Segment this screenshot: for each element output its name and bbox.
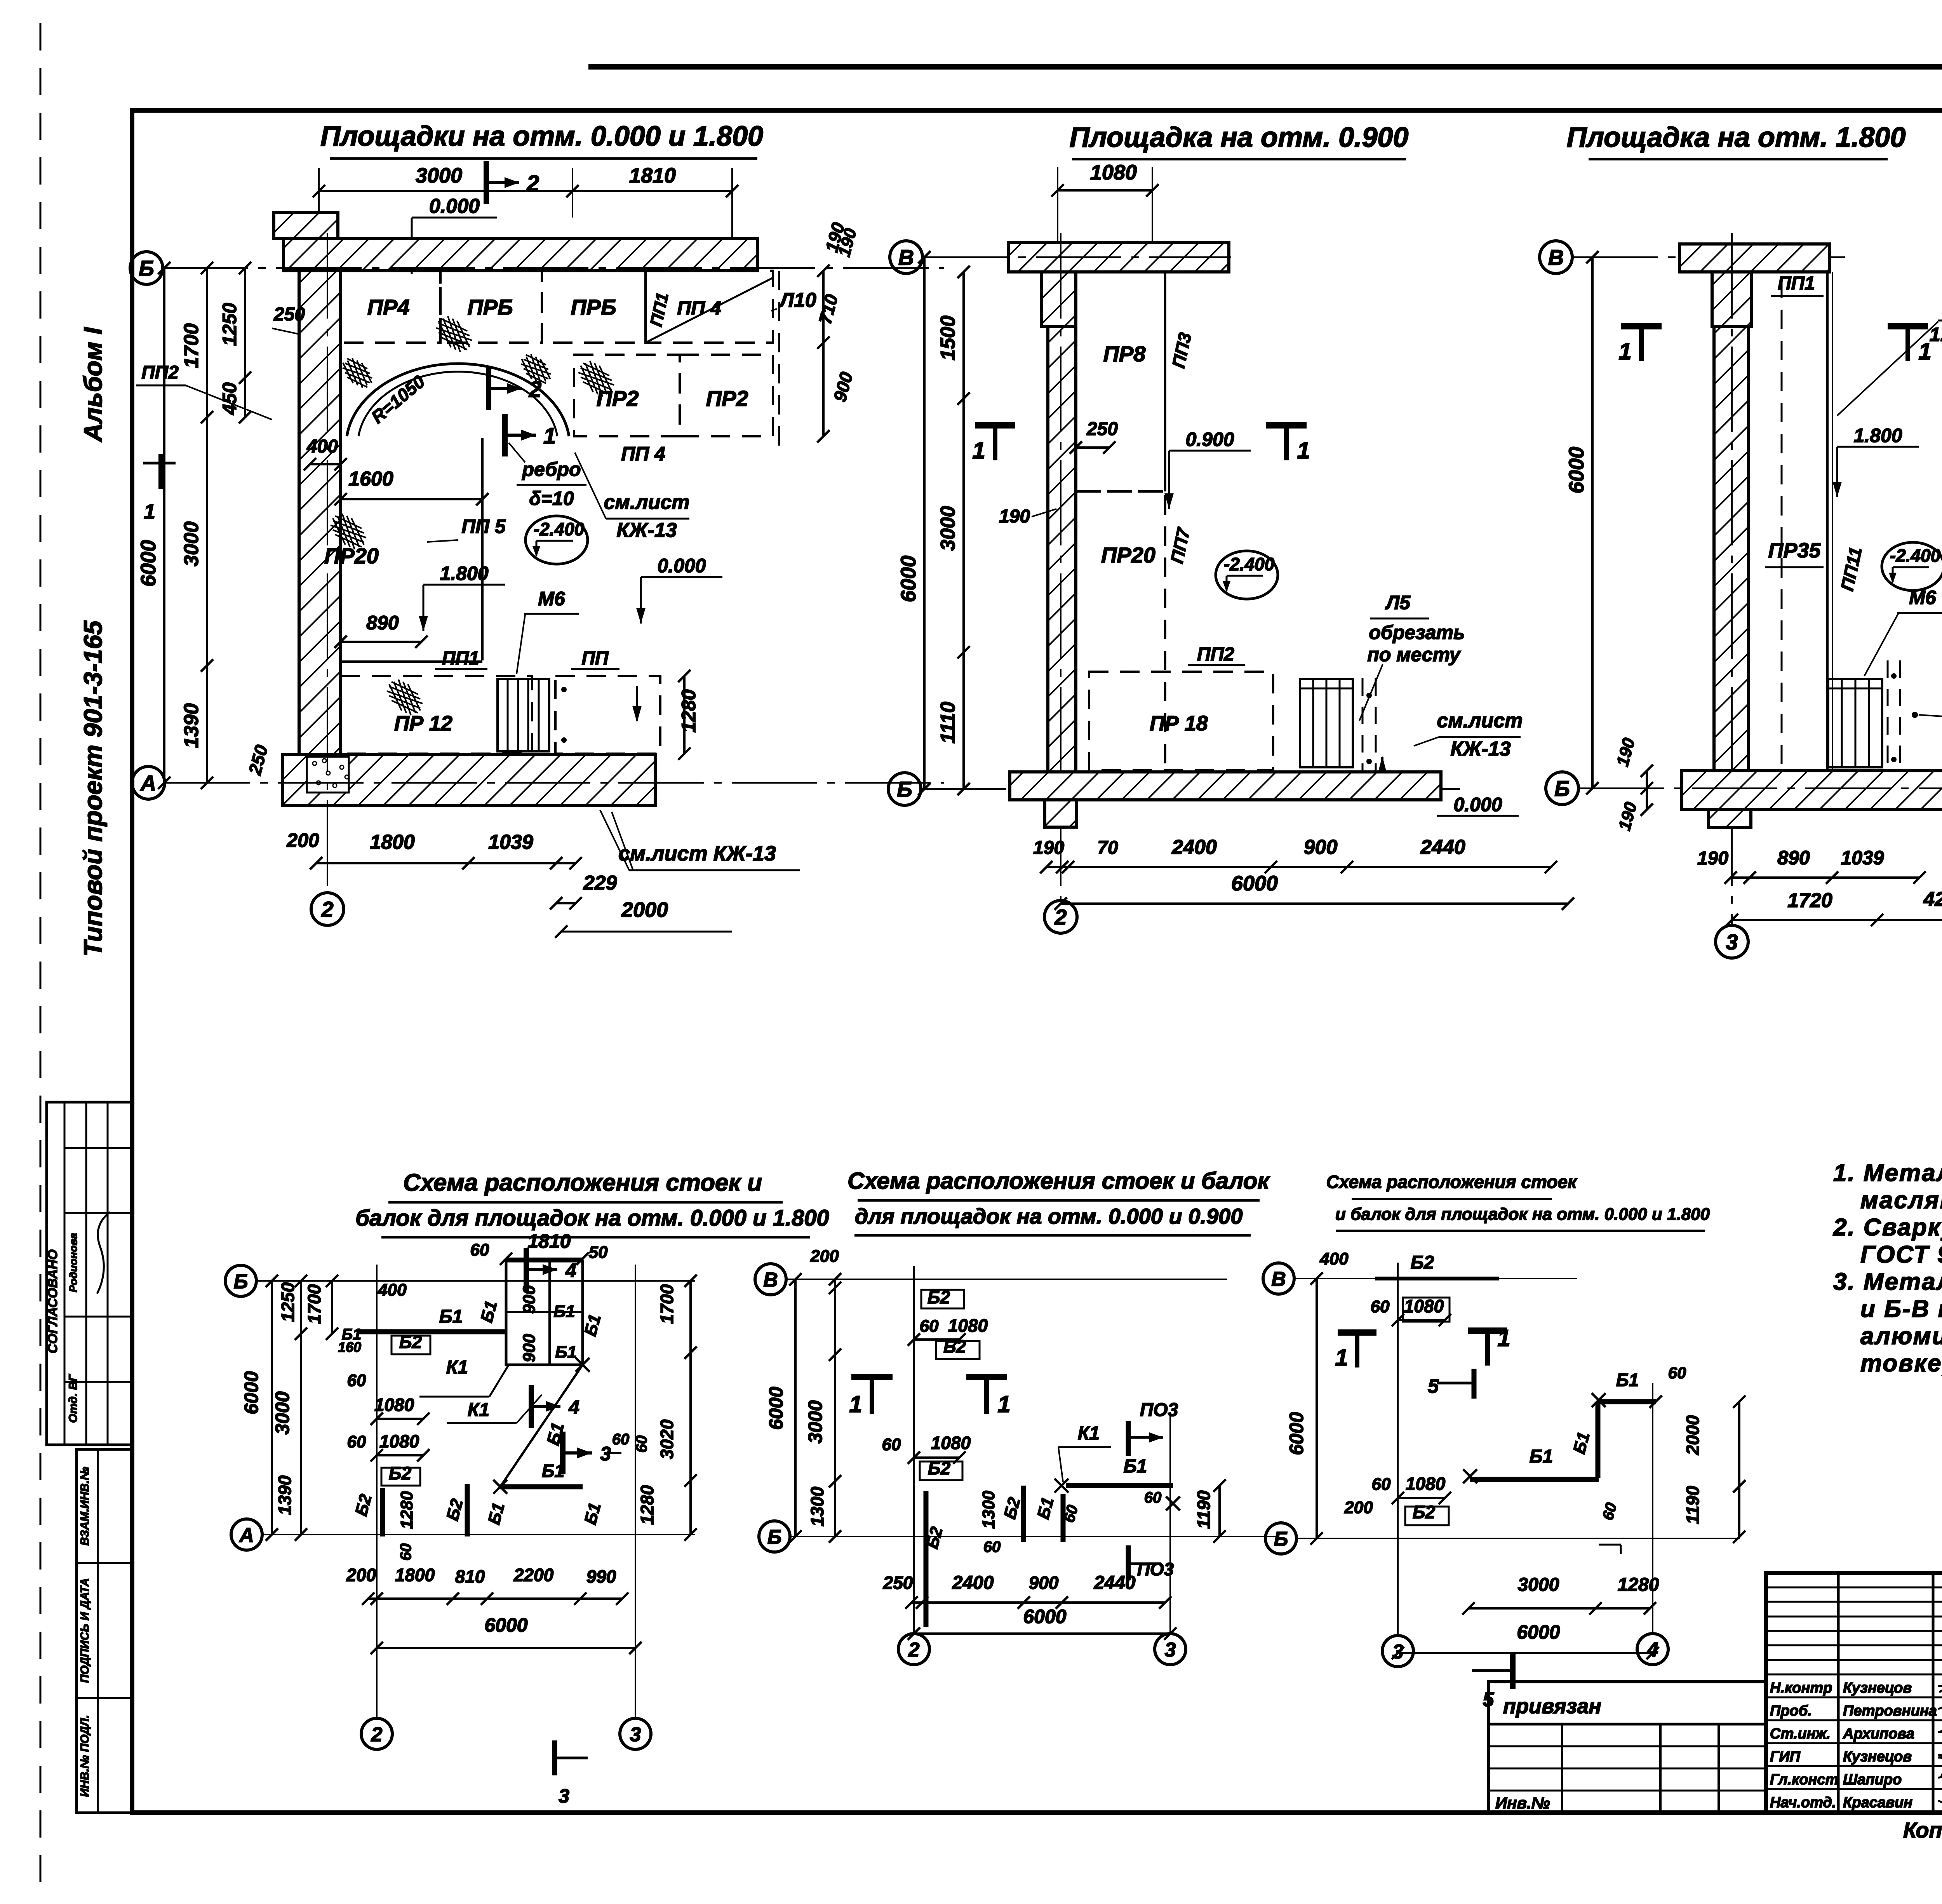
svg-text:Петровнина: Петровнина	[1843, 1703, 1937, 1719]
stairs d2	[1300, 679, 1353, 767]
svg-text:Копировал Корецкая: Копировал Корецкая	[1903, 1818, 1942, 1842]
svg-text:3000: 3000	[180, 521, 203, 566]
svg-text:450: 450	[219, 382, 240, 415]
scheme1 axes	[225, 1265, 256, 1296]
svg-text:Б1: Б1	[439, 1306, 463, 1327]
svg-text:Проб.: Проб.	[1770, 1703, 1812, 1719]
svg-text:1700: 1700	[304, 1284, 324, 1324]
svg-text:ПРБ: ПРБ	[467, 295, 513, 319]
platform PR18	[1089, 672, 1273, 770]
svg-text:К1: К1	[1078, 1423, 1100, 1444]
svg-text:Б1: Б1	[1530, 1446, 1553, 1467]
svg-text:1: 1	[1497, 1325, 1510, 1351]
svg-text:2200: 2200	[513, 1565, 554, 1585]
svg-text:250: 250	[883, 1573, 913, 1593]
scheme3 flag 5 bottom	[1472, 1669, 1511, 1672]
svg-text:900: 900	[520, 1285, 539, 1314]
svg-text:Площадки на отм. 0.000 и 1.8: Площадки на отм. 0.000 и 1.800	[320, 121, 763, 152]
svg-text:ПП 4: ПП 4	[621, 443, 665, 465]
svg-text:60: 60	[470, 1240, 489, 1259]
svg-text:ПР4: ПР4	[367, 295, 410, 319]
svg-text:алюминиевой пудры (лак БТ-57: алюминиевой пудры (лак БТ-577) по огрун-	[1860, 1323, 1942, 1350]
svg-text:3: 3	[1165, 1639, 1176, 1661]
svg-text:Б1: Б1	[1616, 1370, 1639, 1390]
svg-text:0.000: 0.000	[657, 555, 706, 577]
svg-text:Архипова: Архипова	[1843, 1726, 1914, 1742]
svg-text:6000: 6000	[897, 556, 920, 602]
svg-text:1300: 1300	[979, 1491, 998, 1529]
svg-text:60: 60	[633, 1435, 650, 1453]
svg-text:50: 50	[589, 1243, 608, 1262]
svg-text:2. Сварку производить электр: 2. Сварку производить электродами Э42	[1833, 1214, 1942, 1241]
svg-text:см.лист: см.лист	[1437, 709, 1523, 732]
svg-text:обрезать: обрезать	[1369, 622, 1465, 643]
scheme1 beam B1 top	[357, 1329, 506, 1334]
svg-text:1.459-2,вып.1: 1.459-2,вып.1	[1930, 324, 1942, 345]
svg-text:60: 60	[920, 1317, 939, 1336]
svg-text:Площадка на отм. 0.900: Площадка на отм. 0.900	[1070, 122, 1409, 153]
svg-text:Б: Б	[139, 256, 154, 280]
scheme3 bottom dims	[1469, 1607, 1650, 1610]
svg-text:190: 190	[1033, 838, 1064, 858]
svg-text:ПП1: ПП1	[1778, 273, 1815, 294]
svg-text:В: В	[763, 1269, 778, 1291]
pilaster d3	[1712, 272, 1752, 326]
svg-text:2: 2	[526, 171, 539, 196]
svg-text:В: В	[1271, 1268, 1286, 1291]
svg-text:1080: 1080	[948, 1315, 988, 1336]
svg-text:1: 1	[849, 1391, 862, 1417]
wall top band d3	[1679, 244, 1829, 272]
svg-text:ГИП: ГИП	[1770, 1749, 1801, 1765]
svg-text:ПРБ: ПРБ	[571, 295, 616, 319]
wall strip d3	[1714, 326, 1749, 771]
platform PR4	[341, 271, 440, 343]
svg-text:400: 400	[378, 1280, 407, 1300]
svg-text:2: 2	[529, 377, 541, 402]
svg-text:ПП2: ПП2	[141, 362, 179, 383]
svg-text:Б: Б	[767, 1526, 782, 1549]
svg-text:Шапиро: Шапиро	[1843, 1772, 1902, 1788]
svg-text:2400: 2400	[952, 1573, 994, 1593]
svg-text:3: 3	[1726, 930, 1738, 954]
scheme2 flags 1	[851, 1374, 893, 1380]
svg-text:1700: 1700	[180, 323, 203, 368]
svg-text:200: 200	[1344, 1498, 1373, 1517]
scheme1 diagonal B1	[500, 1365, 583, 1487]
sheet frame	[588, 64, 1942, 70]
svg-text:6000: 6000	[137, 540, 160, 587]
svg-text:ПП 4: ПП 4	[677, 297, 721, 319]
axis 2 line	[311, 893, 344, 925]
privyazan box	[1489, 1682, 1766, 1813]
svg-text:1110: 1110	[937, 702, 959, 744]
svg-text:2400: 2400	[1171, 836, 1217, 859]
svg-text:Б2: Б2	[1411, 1252, 1434, 1273]
wall top band d2	[1008, 242, 1229, 272]
cut flag 1 left margin d1	[158, 454, 164, 489]
stairs	[498, 679, 549, 751]
svg-text:Л10: Л10	[778, 289, 816, 312]
svg-text:-2.400: -2.400	[1224, 554, 1275, 574]
svg-text:Красавин: Красавин	[1843, 1794, 1912, 1811]
dashed columns d3	[1887, 660, 1889, 771]
platform edges d3	[1781, 279, 1783, 771]
svg-text:Отд. ВГ: Отд. ВГ	[67, 1374, 80, 1423]
svg-text:и Б-В покрыть 2 слоями лак: и Б-В покрыть 2 слоями лака с добавление…	[1860, 1296, 1942, 1322]
scheme2 B1 horizontal	[1066, 1483, 1173, 1488]
svg-text:1250: 1250	[278, 1282, 298, 1322]
svg-text:СОГЛАСОВАНО: СОГЛАСОВАНО	[45, 1249, 60, 1353]
svg-text:3000: 3000	[1518, 1575, 1559, 1595]
left dims d2	[962, 272, 965, 789]
svg-text:3000: 3000	[804, 1400, 826, 1443]
svg-text:ПП1: ПП1	[442, 648, 479, 669]
svg-text:1: 1	[1297, 437, 1310, 463]
soglasovano stamp box	[47, 1102, 132, 1445]
svg-text:810: 810	[455, 1566, 485, 1587]
arc R=1050	[347, 364, 569, 436]
svg-text:1810: 1810	[527, 1230, 571, 1252]
svg-text:0.000: 0.000	[429, 195, 480, 218]
scheme3 left dim	[1316, 1279, 1318, 1538]
wall top band	[284, 239, 757, 271]
scheme1 bottom beams	[500, 1484, 583, 1489]
axis B line	[130, 252, 163, 284]
svg-text:1: 1	[1335, 1345, 1348, 1371]
svg-text:К1: К1	[446, 1357, 468, 1378]
svg-text:4280: 4280	[1923, 888, 1942, 911]
platform PR8	[1076, 272, 1165, 491]
svg-text:Нач.отд.: Нач.отд.	[1770, 1794, 1836, 1811]
dashed platform right of stairs	[555, 676, 660, 754]
svg-text:3: 3	[559, 1785, 569, 1807]
svg-text:ПР8: ПР8	[1103, 341, 1146, 366]
svg-text:ПР 18: ПР 18	[1150, 712, 1208, 735]
svg-text:200: 200	[810, 1247, 839, 1266]
axis 2 d2	[1044, 901, 1077, 933]
svg-text:1: 1	[997, 1391, 1010, 1417]
svg-text:0.900: 0.900	[1185, 429, 1234, 450]
svg-text:см.лист КЖ-13: см.лист КЖ-13	[618, 842, 776, 865]
svg-text:ПО3: ПО3	[1140, 1400, 1178, 1420]
svg-text:ПО3: ПО3	[1137, 1559, 1174, 1579]
svg-text:КЖ-13: КЖ-13	[616, 519, 677, 542]
svg-text:2: 2	[908, 1639, 920, 1661]
svg-text:Б: Б	[234, 1270, 248, 1293]
svg-text:ГОСТ 9467-75, hшв = 6мм.: ГОСТ 9467-75, hшв = 6мм.	[1860, 1241, 1942, 1268]
svg-text:Б1: Б1	[542, 1461, 564, 1481]
svg-text:δ=10: δ=10	[529, 488, 574, 509]
svg-text:200: 200	[346, 1565, 376, 1585]
svg-text:2440: 2440	[1094, 1573, 1136, 1593]
svg-text:ПП 5: ПП 5	[461, 516, 506, 537]
svg-text:Типовой проект 901-3-165: Типовой проект 901-3-165	[78, 620, 107, 956]
scheme3 flags	[1338, 1329, 1376, 1336]
section flags 1 d2	[975, 422, 1015, 429]
svg-text:1080: 1080	[1090, 161, 1137, 184]
PP1 area right	[646, 271, 773, 343]
wall bottom band d2	[1010, 772, 1441, 800]
svg-text:60: 60	[397, 1543, 414, 1561]
svg-text:2440: 2440	[1420, 836, 1465, 859]
svg-text:160: 160	[338, 1339, 361, 1355]
bottom dims d2	[1046, 866, 1551, 868]
svg-text:890: 890	[1777, 847, 1810, 869]
svg-text:890: 890	[366, 612, 399, 634]
svg-text:400: 400	[1319, 1249, 1349, 1268]
svg-text:1: 1	[543, 423, 556, 449]
scheme3 beams	[1463, 1469, 1477, 1483]
svg-text:6000: 6000	[765, 1387, 787, 1430]
svg-text:ПР20: ПР20	[1101, 543, 1155, 567]
svg-text:6000: 6000	[240, 1371, 262, 1414]
svg-text:1250: 1250	[219, 303, 240, 346]
svg-text:по месту: по месту	[1367, 644, 1461, 665]
svg-text:-2.400: -2.400	[1890, 545, 1941, 566]
svg-text:ребро: ребро	[521, 458, 581, 480]
svg-text:Б2: Б2	[1413, 1502, 1436, 1522]
svg-text:1080: 1080	[1406, 1474, 1446, 1494]
svg-text:1280: 1280	[1618, 1575, 1659, 1595]
svg-text:1700: 1700	[657, 1284, 677, 1324]
svg-text:Гл.конст: Гл.конст	[1770, 1772, 1838, 1788]
svg-text:Б2: Б2	[389, 1463, 412, 1483]
svg-text:ИНВ.№ ПОДЛ.: ИНВ.№ ПОДЛ.	[78, 1715, 91, 1797]
svg-text:3020: 3020	[657, 1419, 677, 1459]
svg-text:900: 900	[520, 1334, 539, 1362]
svg-text:для площадок на отм. 0.000 и 0: для площадок на отм. 0.000 и 0.900	[855, 1204, 1243, 1228]
svg-text:3000: 3000	[416, 164, 462, 187]
svg-text:250: 250	[273, 304, 305, 325]
svg-text:В: В	[898, 245, 914, 270]
left edge dashed line	[40, 23, 42, 1896]
svg-text:1: 1	[144, 500, 155, 523]
svg-text:Площадка на отм. 1.800: Площадка на отм. 1.800	[1567, 122, 1906, 153]
svg-text:6000: 6000	[1231, 872, 1278, 895]
svg-text:1080: 1080	[1404, 1296, 1444, 1316]
svg-text:масляной краской за 2 раза: масляной краской за 2 раза ( ГОСТ 695-77…	[1860, 1187, 1942, 1214]
svg-text:400: 400	[306, 436, 338, 457]
svg-text:1720: 1720	[1787, 889, 1832, 912]
svg-text:Кузнецов: Кузнецов	[1843, 1749, 1912, 1765]
svg-text:ВЗАМ.ИНВ.№: ВЗАМ.ИНВ.№	[78, 1467, 91, 1546]
axis A line	[132, 766, 165, 799]
dashed columns right d2	[1362, 678, 1364, 800]
svg-text:ПР 12: ПР 12	[394, 712, 452, 735]
svg-text:Ст.инж.: Ст.инж.	[1770, 1726, 1831, 1742]
section flags 1 d3	[1621, 323, 1662, 329]
svg-text:0.000: 0.000	[1453, 794, 1502, 815]
svg-text:1.800: 1.800	[440, 563, 488, 584]
svg-text:В: В	[1548, 245, 1564, 270]
svg-text:3000: 3000	[937, 506, 959, 551]
svg-text:2000: 2000	[1683, 1415, 1703, 1455]
svg-text:ПР20: ПР20	[324, 544, 379, 568]
svg-text:товке, состоящей из 1 слоя: товке, состоящей из 1 слоя лака БТ-577.	[1860, 1350, 1942, 1377]
svg-text:60: 60	[983, 1538, 1001, 1556]
svg-text:А: А	[238, 1524, 254, 1547]
svg-text:1080: 1080	[931, 1433, 971, 1453]
svg-text:ПР2: ПР2	[597, 386, 639, 411]
svg-text:6000: 6000	[1565, 447, 1588, 493]
svg-text:Б1: Б1	[555, 1343, 577, 1362]
svg-text:ПП: ПП	[581, 648, 609, 669]
scheme2 B1 vertical	[1061, 1494, 1066, 1542]
svg-text:190: 190	[1697, 848, 1728, 869]
platform PR12	[341, 676, 532, 754]
svg-text:1190: 1190	[1194, 1490, 1214, 1529]
concrete dots d1	[313, 761, 317, 765]
svg-text:Б1: Б1	[1124, 1456, 1147, 1477]
axis V d2	[890, 241, 922, 273]
svg-text:Б: Б	[1554, 776, 1570, 801]
scheme2 PO3 bottom flag	[1126, 1545, 1131, 1580]
svg-text:70: 70	[1097, 838, 1118, 858]
wall corner block top-left	[274, 213, 338, 239]
svg-text:Н.контр: Н.контр	[1770, 1680, 1832, 1696]
svg-text:Родионова: Родионова	[67, 1233, 79, 1292]
platform PR20 d2	[1076, 491, 1165, 773]
svg-text:60: 60	[347, 1371, 366, 1390]
svg-text:Л5: Л5	[1385, 592, 1411, 613]
svg-text:900: 900	[1029, 1573, 1059, 1593]
wall foot d3	[1709, 810, 1751, 827]
svg-text:1390: 1390	[275, 1475, 295, 1515]
svg-text:Инв.№: Инв.№	[1495, 1794, 1550, 1812]
scheme3 axes	[1263, 1263, 1294, 1294]
svg-text:60: 60	[1144, 1489, 1162, 1506]
svg-text:6000: 6000	[1517, 1621, 1560, 1643]
left dim chains	[163, 268, 165, 783]
svg-text:привязан: привязан	[1503, 1695, 1601, 1718]
svg-text:1080: 1080	[374, 1395, 414, 1415]
platform PR2 right	[680, 355, 773, 436]
section flag 2 top	[484, 161, 489, 204]
svg-text:4: 4	[565, 1259, 576, 1281]
left dim d3	[1591, 257, 1594, 788]
svg-text:Б1: Б1	[553, 1302, 575, 1321]
svg-text:1800: 1800	[370, 831, 415, 854]
svg-text:Б2: Б2	[943, 1336, 966, 1357]
bottom band	[282, 754, 655, 805]
title block	[1766, 1573, 1942, 1813]
section flag 1 mid	[502, 414, 508, 456]
svg-text:1039: 1039	[488, 831, 533, 854]
svg-text:ПОДПИСЬ И ДАТА: ПОДПИСЬ И ДАТА	[78, 1578, 91, 1683]
scheme2 bottom dims	[912, 1601, 1165, 1604]
svg-text:60: 60	[1371, 1297, 1390, 1316]
svg-text:ПР35: ПР35	[1768, 539, 1821, 562]
svg-text:1080: 1080	[379, 1431, 419, 1451]
wall foot d2	[1045, 800, 1077, 827]
axis 3 d3	[1716, 925, 1748, 958]
svg-text:60: 60	[1668, 1364, 1686, 1382]
svg-text:990: 990	[586, 1566, 616, 1587]
svg-text:Кузнецов: Кузнецов	[1843, 1680, 1912, 1696]
svg-text:2: 2	[371, 1723, 383, 1746]
svg-text:К1: К1	[468, 1400, 489, 1420]
svg-text:М6: М6	[1909, 587, 1937, 608]
svg-text:2000: 2000	[621, 898, 668, 922]
axis B d2	[888, 773, 921, 805]
svg-text:и балок для площадок на отм. 0: и балок для площадок на отм. 0.000 и 1.8…	[1335, 1205, 1710, 1224]
bottom band d3	[1682, 771, 1942, 810]
left wall	[299, 271, 341, 754]
axis B d3	[1546, 772, 1578, 805]
svg-text:Схема расположения стоек и: Схема расположения стоек и	[403, 1169, 762, 1196]
svg-text:1039: 1039	[1841, 847, 1884, 869]
stairs d3	[1828, 679, 1882, 767]
svg-text:6000: 6000	[1023, 1606, 1066, 1627]
scheme2 axes	[755, 1264, 786, 1295]
svg-text:5: 5	[1483, 1688, 1495, 1711]
svg-text:1.800: 1.800	[1853, 425, 1902, 446]
svg-text:1390: 1390	[180, 703, 203, 748]
svg-text:60: 60	[347, 1432, 366, 1451]
svg-text:Б: Б	[897, 777, 912, 801]
wall strip d2	[1048, 326, 1076, 772]
svg-text:1. Металлические балки и с: 1. Металлические балки и стойки покрасит…	[1833, 1160, 1942, 1186]
scheme1 flag 3 bottom	[552, 1740, 557, 1775]
section flag 2 mid	[486, 367, 491, 410]
svg-text:1: 1	[972, 437, 985, 463]
svg-text:229: 229	[583, 872, 617, 894]
svg-text:60: 60	[1372, 1475, 1391, 1494]
svg-text:Б: Б	[1274, 1528, 1288, 1550]
svg-text:КЖ-13: КЖ-13	[1450, 738, 1510, 760]
svg-text:1600: 1600	[348, 468, 393, 490]
svg-text:3000: 3000	[271, 1391, 293, 1434]
svg-text:Альбом I: Альбом I	[78, 327, 107, 442]
svg-text:-2.400: -2.400	[534, 519, 585, 539]
bottom dims d3	[1731, 876, 1919, 879]
svg-text:ПП2: ПП2	[1197, 644, 1234, 665]
svg-text:1280: 1280	[678, 689, 700, 732]
svg-text:ПР2: ПР2	[706, 386, 748, 411]
svg-text:3. Металлоконструкции площадк: 3. Металлоконструкции площадки в осях 3-…	[1833, 1268, 1942, 1295]
svg-text:900: 900	[1304, 836, 1338, 859]
svg-text:М6: М6	[538, 588, 566, 610]
svg-text:1: 1	[1618, 338, 1631, 364]
lower sidebar box	[77, 1449, 132, 1813]
svg-text:4: 4	[568, 1396, 579, 1418]
svg-text:Схема расположения стоек и бал: Схема расположения стоек и балок	[847, 1168, 1270, 1194]
scheme2 B2 heavy verticals	[924, 1491, 929, 1627]
scheme1 bottom dims	[368, 1597, 622, 1600]
svg-text:1810: 1810	[629, 164, 676, 187]
platform PRB 2	[542, 271, 646, 343]
svg-text:1190: 1190	[1683, 1486, 1703, 1524]
up arrow d2	[1381, 757, 1383, 787]
svg-text:60: 60	[882, 1435, 901, 1454]
svg-text:5: 5	[1428, 1375, 1439, 1397]
svg-text:6000: 6000	[1286, 1412, 1307, 1455]
svg-text:60: 60	[612, 1431, 630, 1448]
platform PR2 left	[574, 355, 680, 436]
svg-text:балок для площадок на отм. 0.: балок для площадок на отм. 0.000 и 1.800	[355, 1205, 829, 1231]
axis V d3	[1540, 241, 1572, 273]
svg-text:1500: 1500	[937, 315, 959, 361]
pilaster d2	[1041, 272, 1076, 326]
svg-text:А: А	[140, 771, 156, 795]
svg-text:2: 2	[321, 897, 333, 922]
svg-text:1800: 1800	[395, 1565, 435, 1585]
svg-text:Схема расположения стоек: Схема расположения стоек	[1326, 1172, 1578, 1192]
svg-text:200: 200	[286, 829, 319, 851]
svg-text:1300: 1300	[807, 1486, 827, 1526]
svg-text:250: 250	[1086, 419, 1118, 439]
